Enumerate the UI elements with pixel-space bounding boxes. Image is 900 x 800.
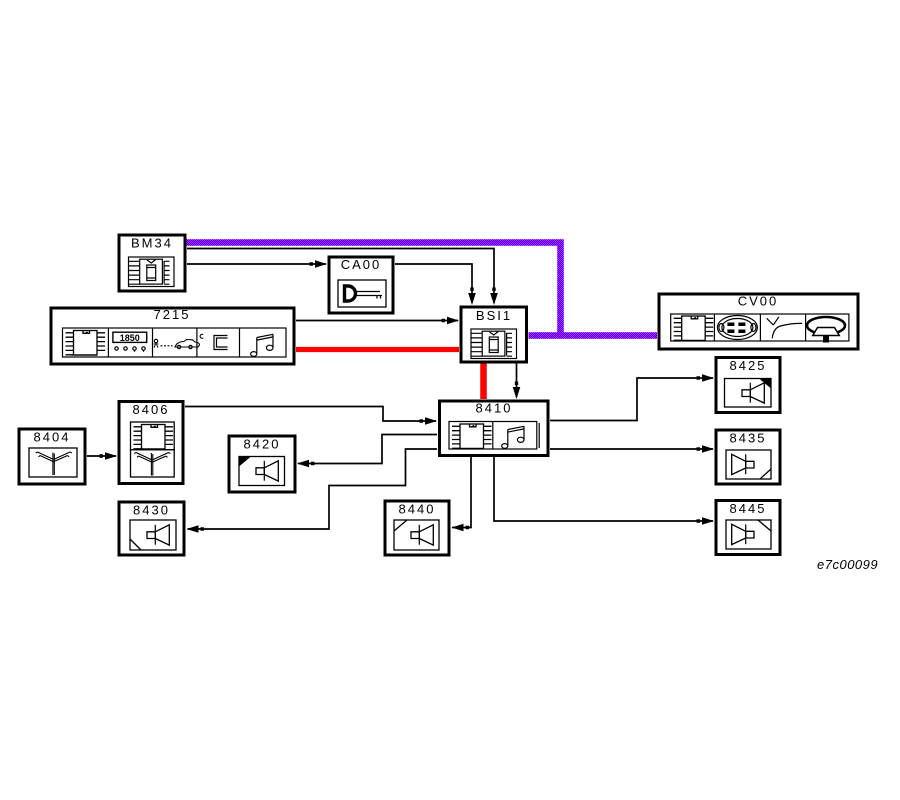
svg-text:8406: 8406 xyxy=(133,402,170,417)
wire red 7215 to BSI1 (thick) xyxy=(296,347,459,352)
arrow into 8435 left xyxy=(697,445,715,453)
component 8440 rear left speaker 2 xyxy=(385,501,449,555)
wire BM34 to BSI1 top xyxy=(187,249,494,304)
svg-text:BSI1: BSI1 xyxy=(476,308,512,323)
arrow into 8445 left xyxy=(697,517,715,525)
component 8425 front right speaker xyxy=(716,358,780,413)
component BM34 battery/fuse box xyxy=(119,235,185,291)
arrow into 8410 left xyxy=(420,417,438,425)
svg-text:CA00: CA00 xyxy=(341,257,382,272)
wire CA00 to BSI1 top xyxy=(395,264,472,303)
component 8410 amplifier xyxy=(440,401,549,456)
icon chip 7215 xyxy=(66,331,106,356)
arrow into BSI1 top left xyxy=(468,288,476,306)
wire 8410 to 8445 xyxy=(494,457,713,521)
component 8404 antenna xyxy=(19,429,85,484)
svg-text:8435: 8435 xyxy=(730,431,767,446)
svg-text:8440: 8440 xyxy=(399,502,436,517)
component 8406 antenna amplifier xyxy=(119,402,183,484)
wire 8410 to 8435 xyxy=(550,448,713,450)
svg-text:CV00: CV00 xyxy=(738,294,779,309)
wire BM34 to CA00 xyxy=(187,263,326,265)
svg-text:8430: 8430 xyxy=(133,503,170,518)
svg-text:e7c00099: e7c00099 xyxy=(817,557,878,572)
arrow into 8410 top xyxy=(513,382,521,400)
wire 7215 to BSI1 left xyxy=(296,320,458,322)
icon person and car 7215 xyxy=(154,339,200,348)
wire BSI1 bottom to 8410 top xyxy=(516,362,518,397)
svg-text:8410: 8410 xyxy=(476,401,513,416)
icon connector CV00 xyxy=(717,316,757,340)
svg-text:8420: 8420 xyxy=(244,437,281,452)
wire 8410 to 8430 xyxy=(188,449,438,529)
arrow into 8420 right xyxy=(297,460,315,468)
wire 8404 to 8406 left xyxy=(87,455,116,457)
arrow into 8406 left xyxy=(100,452,118,460)
arrow into 8430 right xyxy=(187,525,205,533)
component CA00 ignition switch xyxy=(329,257,393,313)
svg-text:7215: 7215 xyxy=(154,307,191,322)
component 8445 rear right speaker 2 xyxy=(716,501,780,555)
component 8420 front left speaker xyxy=(229,436,295,492)
arrow into BSI1 top right xyxy=(490,288,498,306)
wire 8410 to 8440 xyxy=(452,457,471,528)
icon steering wheel CV00 xyxy=(807,317,845,343)
svg-text:BM34: BM34 xyxy=(131,236,173,251)
wire red BSI1 to 8410 (thick) xyxy=(480,362,487,399)
wire 8406 to 8410 left xyxy=(185,407,436,422)
component BSI1 body control unit xyxy=(461,307,527,362)
component 7215 radio head unit xyxy=(51,307,294,364)
arrow into BSI1 left xyxy=(442,317,460,325)
svg-text:8425: 8425 xyxy=(730,358,767,373)
wire purple BM34 to junction to CV00 (thick hatched) xyxy=(186,243,657,336)
icon display 7215 xyxy=(113,332,147,352)
icon bracket 7215 xyxy=(200,334,227,349)
arrow into 8440 right xyxy=(452,524,470,532)
component 8435 rear right speaker xyxy=(716,430,780,484)
svg-text:8445: 8445 xyxy=(730,501,767,516)
arrow into CA00 xyxy=(310,260,328,268)
icon chip CV00 xyxy=(674,316,714,341)
svg-text:8404: 8404 xyxy=(34,430,71,445)
component 8430 rear left speaker xyxy=(119,502,184,555)
svg-text:1850: 1850 xyxy=(120,333,140,343)
arrow into 8425 left xyxy=(697,374,715,382)
wire 8410 to 8425 xyxy=(550,378,713,421)
component CV00 steering column module xyxy=(659,294,858,350)
wire 8410 to 8420 xyxy=(298,435,437,464)
icon notes 7215 xyxy=(251,334,273,356)
icon column stalk CV00 xyxy=(767,317,803,339)
